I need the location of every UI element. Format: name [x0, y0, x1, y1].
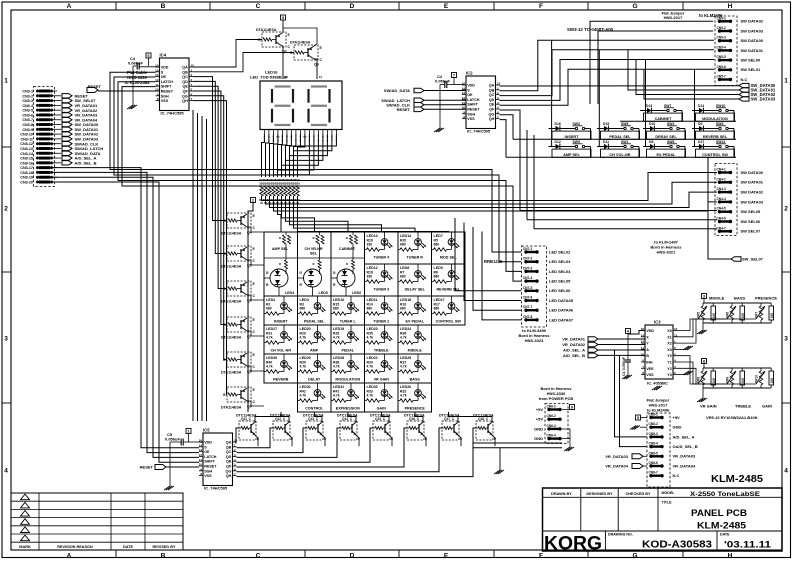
svg-text:QH: QH	[182, 99, 188, 103]
wire to CN7 row	[473, 227, 521, 310]
net SW/AD_DATA	[57, 152, 61, 154]
svg-text:D9: D9	[698, 122, 702, 126]
LED LED10 TUNER L	[331, 296, 365, 325]
svg-text:QB: QB	[226, 445, 232, 449]
connector CN6	[545, 404, 568, 444]
LED LED26 PRESENCE	[398, 383, 432, 412]
svg-text:4.7k: 4.7k	[300, 336, 307, 340]
svg-text:PEDAL: PEDAL	[342, 349, 355, 353]
LED LED2 INSERT	[264, 296, 298, 325]
dual LED5 CH VR-NR SEL	[298, 232, 332, 296]
svg-text:680: 680	[400, 243, 406, 247]
svg-text:0.056uF: 0.056uF	[435, 79, 450, 84]
svg-text:CONTROL SW: CONTROL SW	[436, 320, 462, 324]
ground IC3 Y3	[677, 374, 686, 376]
svg-text:SW DATA00: SW DATA00	[741, 170, 764, 175]
ground IC3 X3	[677, 348, 686, 350]
svg-text:3: 3	[4, 335, 8, 342]
wire pots2 bottom rail	[703, 387, 771, 389]
svg-text:DESIGNED BY: DESIGNED BY	[586, 492, 613, 496]
wire bus outer verticals	[193, 110, 236, 450]
svg-text:CN7-8: CN7-8	[523, 315, 532, 319]
wire SW_DATA	[636, 60, 739, 95]
svg-text:10K: 10K	[770, 377, 774, 384]
svg-text:CN4-7: CN4-7	[717, 226, 726, 230]
wire bus left verticals to IC5	[53, 168, 199, 448]
svg-text:2: 2	[4, 205, 8, 212]
svg-text:LED14: LED14	[400, 234, 411, 238]
wire switch row commons	[620, 120, 736, 122]
svg-text:LED22: LED22	[367, 356, 378, 360]
svg-text:DTA114ESA: DTA114ESA	[221, 371, 242, 375]
svg-text:10K: 10K	[741, 377, 745, 384]
transistor Q4 DTA114ESA	[227, 213, 251, 228]
svg-text:CN6-2: CN6-2	[547, 414, 556, 418]
svg-text:VR10: VR10	[755, 375, 759, 383]
wire DTA emitter rail	[247, 317, 256, 319]
wire to CN7 row	[464, 223, 521, 301]
svg-text:QH: QH	[489, 117, 495, 121]
svg-text:QB: QB	[489, 88, 495, 92]
svg-text:LED5: LED5	[319, 291, 328, 295]
wire DTA emitter rail	[247, 213, 256, 215]
svg-text:GND: GND	[534, 436, 543, 441]
svg-text:4.7k: 4.7k	[333, 365, 340, 369]
wire +5V rails to CN6	[473, 442, 562, 444]
display pins	[263, 130, 265, 135]
LED LED29 DELAY	[298, 354, 332, 383]
wire bus array to CN4	[262, 173, 718, 201]
svg-text:CN6-1: CN6-1	[547, 405, 556, 409]
svg-text:R: R	[346, 236, 348, 240]
svg-text:N.C: N.C	[673, 473, 680, 478]
svg-text:10K: 10K	[741, 312, 745, 319]
svg-text:X0: X0	[667, 329, 672, 333]
svg-text:HNS-3321: HNS-3321	[657, 250, 676, 255]
svg-text:QA: QA	[489, 84, 495, 88]
svg-text:CN3-19: CN3-19	[20, 176, 33, 180]
net VR_DATA04	[57, 119, 61, 121]
svg-text:CN3-15: CN3-15	[20, 157, 33, 161]
wire DTA collector to matrix row	[247, 295, 264, 300]
svg-text:REVERB: REVERB	[273, 378, 289, 382]
svg-text:10K: 10K	[770, 312, 774, 319]
node 8	[702, 359, 707, 364]
svg-text:RESET: RESET	[467, 108, 480, 112]
net SW_DATA03	[57, 138, 61, 140]
LED LED17 CONTROL SW	[432, 296, 466, 325]
potentiometer VR6	[730, 306, 734, 320]
revision table	[11, 493, 183, 550]
svg-text:CN7-1: CN7-1	[523, 247, 532, 251]
svg-text:CN6-3: CN6-3	[547, 424, 556, 428]
svg-text:TUNER 4: TUNER 4	[373, 256, 390, 260]
svg-text:D16: D16	[555, 122, 561, 126]
wire bus IC2 outputs	[500, 85, 740, 87]
svg-text:TUNER L: TUNER L	[340, 320, 357, 324]
svg-text:A: A	[67, 553, 72, 560]
svg-text:B: B	[161, 553, 166, 560]
svg-text:SGH: SGH	[467, 112, 475, 116]
svg-text:SW DATA02: SW DATA02	[741, 19, 764, 24]
svg-text:SW DATA02: SW DATA02	[741, 190, 764, 195]
svg-text:D11: D11	[603, 140, 609, 144]
svg-text:GAIN: GAIN	[377, 407, 387, 411]
svg-text:X3: X3	[667, 348, 672, 352]
node 6	[146, 53, 151, 58]
wire DTA collector to matrix row	[247, 227, 264, 232]
svg-text:680: 680	[434, 243, 440, 247]
title block	[543, 488, 783, 551]
ground CN8	[630, 426, 636, 430]
svg-text:D14: D14	[698, 104, 704, 108]
svg-text:A/D_SEL_B: A/D_SEL_B	[75, 160, 97, 165]
wire pots top bottom rail	[703, 322, 771, 324]
node 5	[281, 15, 286, 20]
svg-text:D15: D15	[603, 122, 609, 126]
LED LED14 TUNER R	[398, 232, 432, 264]
svg-text:CN6-4: CN6-4	[547, 434, 556, 438]
svg-text:SW/AD_DATA: SW/AD_DATA	[384, 88, 410, 93]
svg-text:4.7k: 4.7k	[333, 336, 340, 340]
svg-text:VSS: VSS	[467, 117, 475, 121]
svg-text:4.7k: 4.7k	[367, 394, 374, 398]
svg-text:SW SEL06: SW SEL06	[741, 219, 762, 224]
svg-text:R: R	[312, 236, 314, 240]
svg-text:IC3: IC3	[654, 320, 661, 325]
svg-text:SW3-12 TC-0408T-A00: SW3-12 TC-0408T-A00	[567, 27, 614, 32]
svg-text:LED33: LED33	[367, 385, 378, 389]
svg-text:CN4-6: CN4-6	[717, 217, 726, 221]
wire DTA collector to matrix row	[247, 401, 264, 406]
svg-text:LATCH: LATCH	[467, 98, 480, 102]
svg-text:X1: X1	[667, 335, 672, 339]
svg-text:680: 680	[300, 307, 306, 311]
svg-text:LATCH: LATCH	[204, 455, 217, 459]
svg-text:VR5: VR5	[697, 312, 701, 318]
svg-text:4.7k: 4.7k	[266, 365, 273, 369]
svg-text:QA: QA	[226, 441, 232, 445]
svg-text:VR GAIN: VR GAIN	[374, 378, 390, 382]
svg-text:Y3: Y3	[667, 373, 672, 377]
net A/D_SEL_B	[57, 162, 61, 164]
ground near C5	[169, 442, 171, 486]
svg-text:HNS-3323: HNS-3323	[525, 338, 544, 343]
wire DTA emitter rail	[247, 246, 256, 248]
wire	[286, 134, 323, 177]
svg-text:G: G	[333, 271, 336, 275]
svg-text:TUNER R: TUNER R	[407, 256, 424, 260]
svg-text:SW SEL07: SW SEL07	[741, 229, 762, 234]
svg-text:G: G	[299, 271, 302, 275]
LED LED19 PEDAL	[331, 325, 365, 354]
svg-text:CN4-1: CN4-1	[717, 168, 726, 172]
svg-text:LED SEL06: LED SEL06	[549, 288, 571, 293]
LED LED9 REVERB SEL	[432, 264, 466, 296]
svg-text:LED19: LED19	[333, 327, 344, 331]
svg-text:CN3-5: CN3-5	[22, 109, 33, 113]
svg-text:LED11: LED11	[367, 298, 378, 302]
svg-text:CN7-7: CN7-7	[523, 305, 532, 309]
svg-text:CN3-8: CN3-8	[22, 123, 33, 127]
svg-text:LED2: LED2	[266, 298, 275, 302]
net SW/AD_CLK	[57, 143, 61, 145]
svg-text:SW DATA03: SW DATA03	[741, 28, 764, 33]
svg-text:LED17: LED17	[434, 298, 445, 302]
wire DTC emitter down	[322, 435, 325, 446]
node 7	[452, 73, 457, 78]
svg-text:VR9: VR9	[726, 377, 730, 383]
svg-text:Y1: Y1	[667, 361, 672, 365]
svg-text:CN4-5: CN4-5	[717, 207, 726, 211]
svg-text:MODEL: MODEL	[662, 491, 676, 495]
svg-text:CN5-5: CN5-5	[717, 55, 726, 59]
svg-text:CN3-1: CN3-1	[22, 90, 33, 94]
svg-text:H: H	[728, 3, 733, 10]
net VR_DATA01	[57, 104, 61, 106]
svg-text:CN3-18: CN3-18	[20, 171, 33, 175]
svg-text:LED27: LED27	[266, 327, 277, 331]
node 2	[251, 198, 256, 203]
svg-text:AMP SEL: AMP SEL	[563, 153, 580, 157]
svg-text:from POWER PCB: from POWER PCB	[539, 396, 574, 401]
svg-text:TITLE: TITLE	[662, 501, 673, 505]
wire DTC emitter down	[458, 435, 461, 446]
svg-text:PRESENCE: PRESENCE	[405, 407, 426, 411]
svg-text:IC_4053BC: IC_4053BC	[647, 381, 668, 386]
svg-text:CN8-3: CN8-3	[649, 432, 658, 436]
svg-text:SW DATA00: SW DATA00	[741, 38, 764, 43]
svg-text:VSS: VSS	[161, 99, 169, 103]
wire	[298, 134, 337, 177]
svg-text:SW DATA01: SW DATA01	[741, 180, 764, 185]
svg-text:LED20: LED20	[300, 327, 311, 331]
svg-text:KLM-2485: KLM-2485	[711, 474, 763, 485]
svg-text:CN8-5: CN8-5	[649, 451, 658, 455]
wire DTC emitter down	[289, 435, 292, 446]
svg-text:A/D_SEL_A: A/D_SEL_A	[673, 434, 695, 439]
svg-text:CN7-5: CN7-5	[523, 286, 532, 290]
svg-text:G: G	[632, 3, 637, 10]
svg-text:DRAWING NO.: DRAWING NO.	[608, 533, 633, 537]
svg-text:CH VR-NR: CH VR-NR	[304, 247, 322, 251]
svg-text:EX PEDAL: EX PEDAL	[406, 320, 425, 324]
wire node5 down	[282, 20, 284, 32]
svg-text:VR_DATA04: VR_DATA04	[605, 464, 629, 469]
svg-text:D10: D10	[649, 122, 655, 126]
wire IC3 outputs to pots	[677, 319, 698, 331]
wire CN5 rows 1-2	[590, 21, 713, 104]
LED LED20 AMP	[298, 325, 332, 354]
net SW_DATA02	[57, 133, 61, 135]
wire IC2 to CN4 staircase	[520, 210, 717, 212]
svg-text:IC2: IC2	[466, 71, 473, 76]
svg-text:QF: QF	[489, 108, 495, 112]
svg-text:SW DATA01: SW DATA01	[741, 48, 764, 53]
svg-text:VDD: VDD	[161, 66, 169, 70]
svg-text:DATE: DATE	[123, 545, 134, 549]
svg-text:D: D	[350, 553, 355, 560]
svg-text:SHIFT: SHIFT	[467, 103, 478, 107]
svg-text:0.056uF: 0.056uF	[165, 437, 180, 442]
wire	[290, 134, 328, 177]
svg-text:DATE: DATE	[720, 533, 730, 537]
svg-text:CN3-17: CN3-17	[20, 166, 33, 170]
transistor Q8 DTA114ESA	[227, 352, 251, 367]
svg-text:CN4-3: CN4-3	[717, 187, 726, 191]
svg-text:PEDAL SEL: PEDAL SEL	[304, 320, 325, 324]
svg-text:CHECKED BY: CHECKED BY	[625, 492, 651, 496]
svg-text:680: 680	[333, 307, 339, 311]
svg-text:OE: OE	[204, 450, 210, 454]
svg-text:CN5-7: CN5-7	[717, 75, 726, 79]
svg-text:680: 680	[434, 275, 440, 279]
svg-text:IC_74HC595: IC_74HC595	[161, 111, 185, 116]
svg-text:4.7k: 4.7k	[266, 336, 273, 340]
svg-text:CONTROL: CONTROL	[305, 407, 324, 411]
svg-text:BASS: BASS	[734, 296, 745, 301]
svg-text:D12: D12	[555, 140, 561, 144]
svg-text:REVERB SEL: REVERB SEL	[703, 135, 728, 139]
svg-text:2: 2	[784, 205, 788, 212]
LED LED13 TUNER 4	[365, 232, 399, 264]
svg-text:CABINET: CABINET	[655, 117, 673, 121]
svg-text:LED SEL04: LED SEL04	[549, 269, 571, 274]
svg-text:A/D_SEL_A: A/D_SEL_A	[563, 348, 585, 353]
svg-text:INH: INH	[646, 361, 653, 365]
svg-text:LED DATA05: LED DATA05	[549, 298, 574, 303]
svg-text:IC_74HC595: IC_74HC595	[204, 486, 228, 491]
svg-text:'03.11.11: '03.11.11	[724, 540, 772, 551]
wire SW_DATA	[628, 50, 739, 90]
svg-text:QF: QF	[226, 465, 232, 469]
svg-text:QE: QE	[182, 85, 188, 89]
svg-text:LED29: LED29	[300, 356, 311, 360]
wire Q2 emitter	[282, 32, 283, 33]
svg-text:TUNER 3: TUNER 3	[373, 288, 389, 292]
wire Q3 emitter	[283, 28, 317, 46]
potentiometer VR10	[759, 371, 763, 385]
svg-text:D8: D8	[649, 140, 653, 144]
svg-text:SGH: SGH	[204, 469, 212, 473]
svg-text:QG: QG	[182, 94, 188, 98]
svg-text:H: H	[728, 553, 733, 560]
svg-text:RESET: RESET	[140, 465, 154, 470]
svg-text:LED18: LED18	[400, 298, 411, 302]
wire DTA emitter rail	[247, 387, 256, 389]
svg-text:VDD: VDD	[467, 84, 475, 88]
display digit 1	[275, 85, 291, 87]
svg-text:EXPRESSION: EXPRESSION	[336, 407, 360, 411]
svg-text:KOD-A30583: KOD-A30583	[642, 540, 712, 551]
wire Q3 base from IC4 QB	[193, 53, 294, 72]
svg-text:CN3-10: CN3-10	[20, 133, 33, 137]
svg-text:OA/D_SEL_B: OA/D_SEL_B	[673, 444, 698, 449]
svg-text:Y2: Y2	[667, 367, 672, 371]
svg-text:DTA114ESA: DTA114ESA	[256, 28, 277, 32]
net VR_DATA03	[57, 114, 61, 116]
svg-text:4.7k: 4.7k	[400, 394, 407, 398]
svg-text:VEE: VEE	[646, 367, 654, 371]
svg-text:CN4-4: CN4-4	[717, 197, 726, 201]
net SW_SEL07	[57, 100, 61, 102]
wire to CN7 row	[482, 232, 521, 320]
svg-text:0.066uF: 0.066uF	[128, 61, 143, 66]
svg-text:CN3-11: CN3-11	[20, 137, 33, 141]
svg-text:N.C: N.C	[741, 77, 748, 82]
net SW/AD_LATCH	[57, 147, 61, 149]
svg-text:R: R	[279, 262, 281, 266]
svg-text:R: R	[346, 262, 348, 266]
wire A/D_SEL down to CN8	[598, 350, 647, 437]
svg-text:QC: QC	[226, 450, 232, 454]
svg-text:LED26: LED26	[400, 385, 411, 389]
svg-text:F: F	[539, 3, 543, 10]
svg-text:330: 330	[295, 181, 300, 185]
ground CN6	[562, 429, 570, 447]
svg-text:TUNER 2: TUNER 2	[373, 320, 389, 324]
LED LED7 MOD SEL	[432, 232, 466, 264]
svg-text:4: 4	[4, 467, 8, 474]
potentiometer VR7	[759, 306, 763, 320]
svg-text:+5V: +5V	[536, 417, 544, 422]
wire DTA collector to matrix row	[247, 331, 264, 336]
ground IC3 VSS	[639, 375, 658, 385]
svg-text:VR5-10 RY103W32A1-B10K: VR5-10 RY103W32A1-B10K	[706, 415, 758, 420]
svg-text:CONTROL SW: CONTROL SW	[702, 153, 728, 157]
svg-text:IC4: IC4	[160, 53, 167, 58]
ground pots top	[702, 323, 704, 330]
wire DTC emitter down	[492, 435, 495, 446]
svg-text:CN7-2: CN7-2	[523, 257, 532, 261]
svg-text:RESET: RESET	[204, 465, 217, 469]
ground pots bottom	[702, 388, 704, 398]
svg-text:CN5-4: CN5-4	[717, 45, 726, 49]
svg-text:4.7k: 4.7k	[400, 365, 407, 369]
net VR_DATA02	[57, 109, 61, 111]
svg-text:SW_SEL07: SW_SEL07	[742, 257, 764, 262]
svg-text:RESET: RESET	[397, 107, 411, 112]
svg-text:QG: QG	[489, 112, 495, 116]
svg-text:PEDAL SEL: PEDAL SEL	[609, 135, 631, 139]
wire RESET to IC4	[98, 90, 160, 92]
svg-text:680: 680	[400, 307, 406, 311]
svg-text:QD: QD	[226, 455, 232, 459]
svg-text:CN8-2: CN8-2	[649, 422, 658, 426]
svg-text:C: C	[256, 3, 261, 10]
svg-text:RESET: RESET	[161, 90, 174, 94]
net SW_DATA01	[57, 128, 61, 130]
wire node2 down matrix left	[248, 203, 253, 413]
LED LED33 GAIN	[365, 383, 399, 412]
svg-text:CH VOL-NR: CH VOL-NR	[609, 153, 630, 157]
wire DTA emitter rail	[247, 352, 256, 354]
svg-text:VR6: VR6	[726, 312, 730, 318]
svg-text:CN3-16: CN3-16	[20, 161, 33, 165]
dual LED4 AMP SEL	[264, 232, 298, 296]
node 9	[570, 405, 575, 410]
svg-text:CN5-3: CN5-3	[717, 36, 726, 40]
svg-text:CN8-4: CN8-4	[649, 442, 658, 446]
svg-text:LED_TOD-5388B_B: LED_TOD-5388B_B	[250, 75, 287, 80]
svg-text:LED23: LED23	[367, 327, 378, 331]
svg-text:X2: X2	[667, 342, 672, 346]
svg-text:+5V: +5V	[536, 407, 544, 412]
svg-text:QB: QB	[182, 70, 188, 74]
svg-text:MARK: MARK	[19, 545, 31, 549]
wire	[282, 134, 319, 177]
wire matrix columns down	[255, 412, 281, 422]
